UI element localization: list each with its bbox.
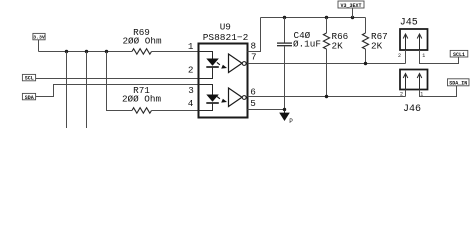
node R66 pin6 xyxy=(325,95,328,98)
LED D1 anode wire xyxy=(199,52,213,59)
node rail C40 xyxy=(283,16,286,19)
wire vertical stub 1 xyxy=(66,52,68,129)
svg-text:2K: 2K xyxy=(332,41,344,52)
connector J45 xyxy=(400,17,428,50)
svg-text:2ØØ Ohm: 2ØØ Ohm xyxy=(122,35,161,46)
svg-text:2: 2 xyxy=(188,65,194,76)
resistor R69 xyxy=(122,27,161,54)
port SCL xyxy=(22,74,35,81)
svg-text:SCL1: SCL1 xyxy=(453,52,465,58)
wire SDA jog to pin3 xyxy=(36,85,199,97)
svg-text:PS8821−2: PS8821−2 xyxy=(203,32,249,43)
svg-text:1: 1 xyxy=(422,53,425,59)
svg-text:2ØØ Ohm: 2ØØ Ohm xyxy=(122,94,161,105)
LED D2 cathode wire xyxy=(199,103,213,111)
wire R69 to pin1 xyxy=(152,51,199,53)
svg-text:Ø.1uF: Ø.1uF xyxy=(293,39,321,50)
wire 3.3V rail left xyxy=(39,51,133,53)
LED D1 xyxy=(206,59,219,68)
svg-text:3.3V: 3.3V xyxy=(33,35,45,41)
wire J46 pin1 to SDA_IN xyxy=(420,86,457,97)
svg-text:P: P xyxy=(289,118,293,125)
ground P xyxy=(279,110,293,126)
node rail V3_3EXT xyxy=(351,16,354,19)
wire J46 pin2 stub xyxy=(405,90,407,97)
power symbol 3.3V xyxy=(33,33,45,40)
LED D2 anode wire xyxy=(199,85,213,95)
svg-text:J45: J45 xyxy=(400,17,418,28)
svg-text:7: 7 xyxy=(251,52,257,63)
op-amp U9 box xyxy=(199,22,249,118)
svg-text:4: 4 xyxy=(188,98,194,109)
node junction A xyxy=(65,50,68,53)
resistor R71 xyxy=(122,85,161,113)
wire vertical to R71 xyxy=(107,52,133,111)
svg-text:J46: J46 xyxy=(403,104,421,115)
svg-text:SCL: SCL xyxy=(25,75,34,81)
svg-text:2: 2 xyxy=(400,92,403,98)
svg-text:SDA_IN: SDA_IN xyxy=(449,81,467,87)
buffer U9b xyxy=(229,88,247,107)
node R67 pin7 xyxy=(364,62,367,65)
buffer U9a xyxy=(229,54,247,73)
node rail R66 xyxy=(325,16,328,19)
wire pin8 riser xyxy=(248,18,261,52)
wire pin5 net xyxy=(248,109,285,111)
port SDA xyxy=(22,93,35,101)
svg-text:5: 5 xyxy=(250,98,256,109)
wire J45 pin1 to SCL1 xyxy=(420,50,459,64)
connector J46 xyxy=(400,70,428,115)
port SCL1 xyxy=(450,50,468,57)
light arrow 2 xyxy=(217,96,227,102)
resistor R66 xyxy=(323,18,348,97)
resistor R67 xyxy=(362,18,387,64)
wire pin7 net xyxy=(248,63,406,65)
node C40 pin5 xyxy=(283,108,286,111)
svg-text:8: 8 xyxy=(251,41,257,52)
svg-text:3: 3 xyxy=(188,85,194,96)
port SDA_IN xyxy=(448,79,470,87)
wire vertical stub 2 xyxy=(86,52,88,129)
svg-text:2K: 2K xyxy=(371,41,383,52)
LED D2 xyxy=(206,95,219,104)
svg-text:1: 1 xyxy=(188,41,194,52)
svg-text:SDA: SDA xyxy=(25,95,34,101)
LED D1 cathode wire xyxy=(199,67,213,79)
node junction C xyxy=(105,50,108,53)
power symbol V3_3EXT xyxy=(338,1,364,18)
svg-text:2: 2 xyxy=(398,53,401,59)
svg-text:V3_3EXT: V3_3EXT xyxy=(340,3,361,9)
node junction B xyxy=(85,50,88,53)
wire J45 pin2 stub xyxy=(405,50,407,64)
wire top rail xyxy=(261,17,366,19)
wire SCL to pin2 xyxy=(36,78,199,80)
wire R71 to pin4 xyxy=(152,110,199,112)
wire 3.3V drop xyxy=(38,40,40,52)
capacitor C40 xyxy=(277,18,321,110)
wire pin6 net xyxy=(248,96,406,98)
light arrow 1 xyxy=(217,62,227,68)
